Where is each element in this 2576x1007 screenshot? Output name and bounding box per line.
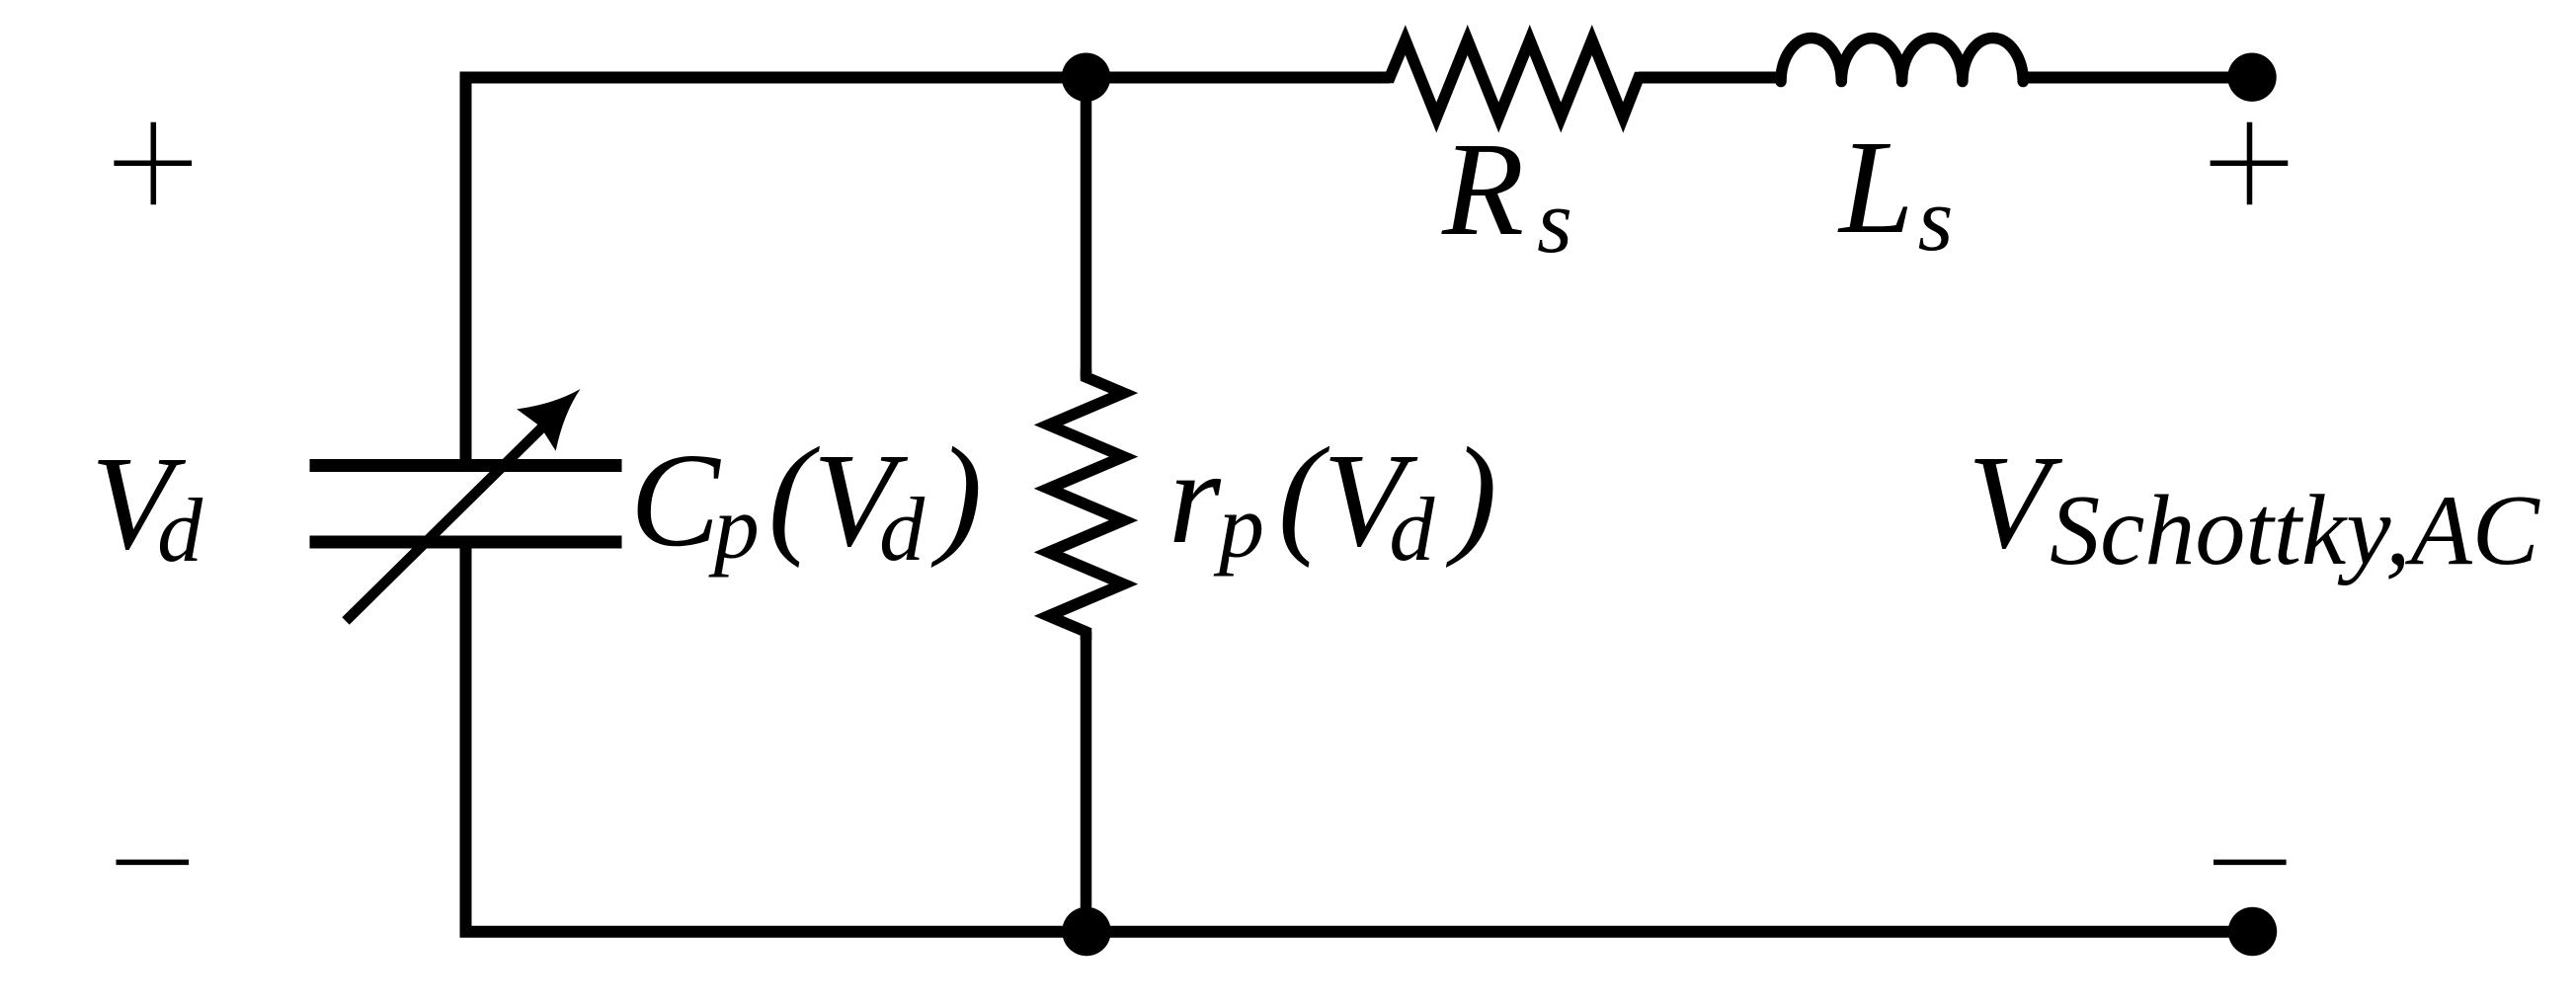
capacitor variable arrow shaft: [346, 415, 555, 621]
capacitor C_p top plate: [310, 459, 622, 472]
inductor L_s (four arcs): [1781, 38, 2023, 81]
node: bottom middle junction: [1062, 907, 1110, 956]
plus sign top-right: [2211, 122, 2289, 204]
minus sign bottom-right: [2214, 860, 2287, 866]
plus sign top-left: [114, 122, 192, 204]
resistor R_s (horizontal zigzag): [1382, 40, 1647, 118]
wire: middle branch from top node down to r_p: [1081, 77, 1092, 377]
wire: top-left corner, left vertical down to capacitor top plate, top wire to R_s: [466, 78, 1391, 465]
minus sign bottom-left: [117, 860, 190, 866]
wire: between L_s and top-right node: [2023, 72, 2252, 84]
node: top right terminal: [2227, 52, 2276, 101]
node: top middle junction: [1062, 52, 1110, 101]
wire: between R_s and L_s: [1639, 72, 1781, 84]
resistor r_p (vertical zigzag): [1049, 369, 1124, 640]
wire: below capacitor, bottom-left corner, bottom wire to bottom-right node: [466, 543, 2253, 932]
capacitor C_p bottom plate: [310, 536, 622, 549]
wire: middle branch from r_p down to bottom node: [1081, 632, 1092, 932]
capacitor variable arrow head: [517, 368, 600, 451]
node: bottom right terminal: [2228, 907, 2277, 956]
